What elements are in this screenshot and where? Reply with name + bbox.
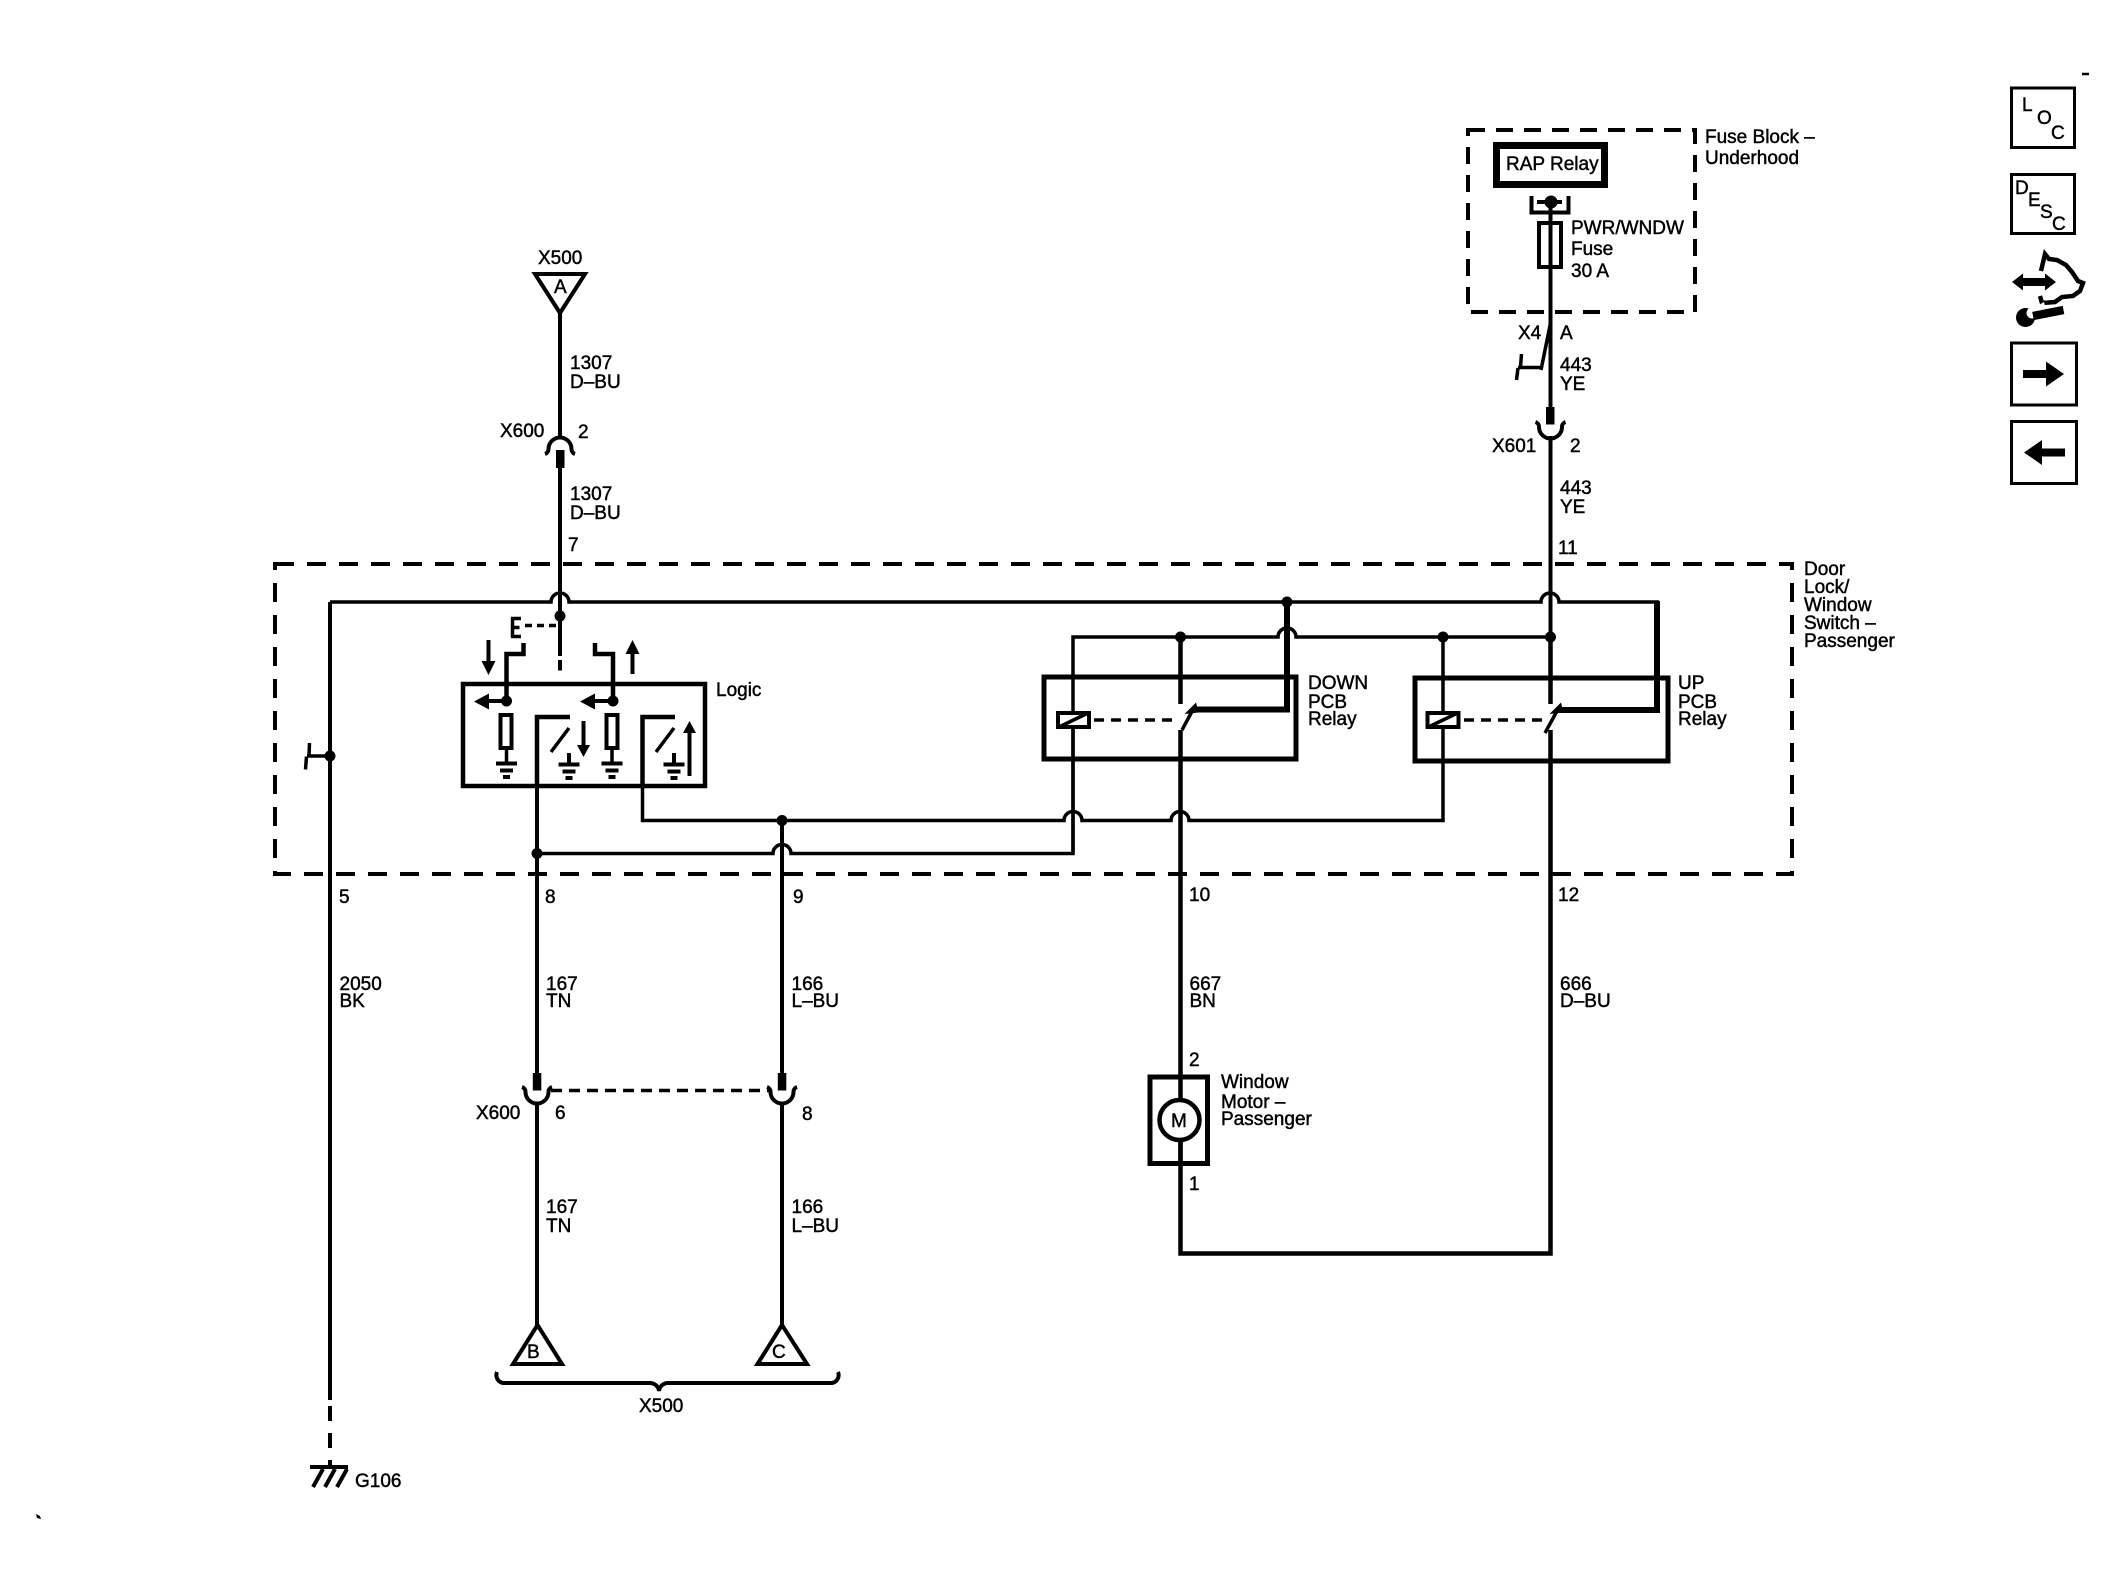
motor circle M bbox=[1160, 1100, 1200, 1140]
up direction arrow (right) bbox=[631, 652, 635, 674]
svg-text:PWR/WNDW: PWR/WNDW bbox=[1571, 218, 1684, 239]
svg-text:Fuse: Fuse bbox=[1571, 239, 1613, 260]
UP relay common riser bbox=[1548, 637, 1553, 704]
mechanical link dashed line E bbox=[525, 624, 557, 628]
svg-text:E: E bbox=[2028, 190, 2041, 211]
wire 443 from relay through fuse bbox=[1549, 202, 1553, 407]
UP relay blade bbox=[1545, 711, 1557, 733]
DOWN coil wire lower bbox=[1071, 729, 1075, 854]
DOWN PCB relay box bbox=[1044, 677, 1296, 759]
svg-text:Passenger: Passenger bbox=[1221, 1109, 1313, 1130]
connector X600 female cup (pin 8) bbox=[767, 1087, 797, 1104]
svg-text:2: 2 bbox=[1570, 436, 1581, 457]
svg-text:RAP Relay: RAP Relay bbox=[1506, 154, 1599, 175]
svg-text:10: 10 bbox=[1189, 885, 1210, 906]
svg-text:1307: 1307 bbox=[570, 484, 612, 505]
logic box bbox=[463, 684, 705, 786]
wire 2050 dashed lower bbox=[328, 1406, 332, 1467]
svg-text:30 A: 30 A bbox=[1571, 261, 1609, 282]
up switch S2 frame bbox=[643, 717, 676, 786]
connector X601 male pin bbox=[1546, 407, 1555, 425]
svg-text:1307: 1307 bbox=[570, 353, 612, 374]
connector X600 male pin (pin 8) bbox=[778, 1073, 787, 1091]
connector X4 terminal A slash bbox=[1541, 323, 1551, 370]
svg-text:TN: TN bbox=[546, 1216, 571, 1237]
wire 666 pin12 to motor pin1 bbox=[1181, 730, 1551, 1254]
connector X600 in-line dashed link bbox=[551, 1089, 770, 1093]
svg-text:YE: YE bbox=[1560, 497, 1585, 518]
bus line 3 (up coil return) with hops over coil wire and pin10 wire bbox=[643, 729, 1444, 821]
svg-text:D–BU: D–BU bbox=[1560, 991, 1611, 1012]
wire 667 pin10 to motor bbox=[1178, 730, 1183, 1164]
svg-text:C: C bbox=[2052, 214, 2066, 235]
ground (up resistor) bbox=[602, 764, 623, 778]
shortcut icon double arrow bbox=[2012, 274, 2056, 291]
svg-text:C: C bbox=[2051, 123, 2065, 144]
svg-text:Underhood: Underhood bbox=[1705, 148, 1799, 169]
svg-text:X600: X600 bbox=[500, 421, 544, 442]
mechanical link dash below pin7 node bbox=[558, 660, 562, 671]
down switch arm (above box) bbox=[507, 643, 614, 701]
DOWN relay common riser bbox=[1178, 637, 1183, 704]
output arrow right bbox=[592, 699, 613, 703]
wire pin8 from down switch to triangle B bbox=[535, 786, 539, 1073]
connector X600 female cup (pin 6) bbox=[522, 1087, 552, 1104]
resistor R down bbox=[501, 715, 512, 748]
svg-text:S: S bbox=[2040, 202, 2053, 223]
junction dot right arm bbox=[608, 696, 619, 707]
shortcut icon wrench bbox=[2016, 302, 2064, 327]
UP relay actuating dashed link bbox=[1464, 718, 1546, 722]
svg-text:C: C bbox=[772, 1342, 786, 1363]
wire pin9 from line3 to triangle C bbox=[780, 821, 784, 1074]
svg-text:A: A bbox=[1560, 323, 1573, 344]
junction dot line2/down relay common bbox=[1175, 632, 1186, 643]
wire 167 lower bbox=[535, 1102, 539, 1327]
junction dot pin9/line3 bbox=[777, 815, 788, 826]
junction dot pin7 node bbox=[555, 611, 566, 622]
fuse PWR/WNDW 30A bbox=[1539, 223, 1561, 267]
svg-text:Relay: Relay bbox=[1678, 709, 1727, 730]
connector X600 female cup (pin 2) bbox=[545, 438, 575, 454]
svg-text:M: M bbox=[1171, 1111, 1187, 1132]
relay output terminal bracket bbox=[1530, 196, 1571, 213]
grommet X500 triangle A bbox=[535, 274, 585, 313]
svg-text:L–BU: L–BU bbox=[792, 991, 840, 1012]
junction dot clip bbox=[325, 751, 336, 762]
svg-text:6: 6 bbox=[555, 1103, 566, 1124]
ground (down switch) bbox=[559, 753, 580, 778]
grommet X500 triangle C bbox=[758, 1325, 808, 1364]
svg-text:1: 1 bbox=[1189, 1174, 1200, 1195]
LOC button bbox=[2012, 88, 2075, 148]
wire 2050 to pin 5 bbox=[328, 602, 332, 1400]
UP relay coil feed wire bbox=[1441, 637, 1445, 711]
svg-text:8: 8 bbox=[802, 1104, 813, 1125]
svg-text:Logic: Logic bbox=[716, 680, 761, 701]
wire 1307 D-BU upper bbox=[558, 311, 562, 439]
svg-text:L–BU: L–BU bbox=[792, 1216, 840, 1237]
ground (down resistor) bbox=[496, 764, 517, 778]
ground G106 bbox=[310, 1467, 348, 1487]
down switch arrow bbox=[582, 721, 586, 746]
svg-text:8: 8 bbox=[545, 887, 556, 908]
svg-text:X4: X4 bbox=[1518, 323, 1542, 344]
window motor box bbox=[1150, 1077, 1208, 1164]
svg-text:12: 12 bbox=[1558, 885, 1579, 906]
svg-text:X601: X601 bbox=[1492, 436, 1536, 457]
svg-text:YE: YE bbox=[1560, 374, 1585, 395]
junction dot pin8/line4 bbox=[532, 848, 543, 859]
svg-text:443: 443 bbox=[1560, 355, 1592, 376]
svg-text:Relay: Relay bbox=[1308, 709, 1357, 730]
stray mark top right bbox=[2082, 73, 2089, 76]
svg-text:166: 166 bbox=[792, 1197, 824, 1218]
svg-text:B: B bbox=[527, 1342, 540, 1363]
svg-text:O: O bbox=[2037, 108, 2052, 129]
UP relay coil bbox=[1428, 713, 1459, 727]
down switch S1 frame bbox=[537, 717, 570, 786]
junction dot NO/line1 bbox=[1282, 597, 1293, 608]
X500 brace bbox=[496, 1372, 838, 1391]
wire 166 lower bbox=[780, 1102, 784, 1327]
wire 1307 D-BU lower to pin 7 bbox=[558, 466, 562, 656]
svg-text:443: 443 bbox=[1560, 478, 1592, 499]
down direction arrow (left) bbox=[487, 640, 491, 663]
svg-text:5: 5 bbox=[339, 887, 350, 908]
svg-text:L: L bbox=[2022, 95, 2033, 116]
bus line 2 (feed to relays) with hop over down contact riser bbox=[1073, 628, 1551, 711]
junction dot on relay output bbox=[1545, 196, 1558, 209]
junction dot line2/pin11 feed bbox=[1545, 632, 1556, 643]
shortcut icon outline bbox=[2040, 254, 2083, 303]
svg-text:X500: X500 bbox=[639, 1396, 683, 1417]
svg-text:D: D bbox=[2015, 178, 2029, 199]
svg-text:TN: TN bbox=[546, 991, 571, 1012]
connector X600 male pin (pin 6) bbox=[533, 1073, 542, 1091]
door lock window switch passenger dashed box bbox=[275, 564, 1792, 874]
svg-text:G106: G106 bbox=[355, 1471, 401, 1492]
RAP Relay K (bold box) bbox=[1497, 146, 1605, 185]
grommet X500 triangle B bbox=[513, 1325, 562, 1364]
svg-text:D–BU: D–BU bbox=[570, 372, 621, 393]
connector X601 female cup bbox=[1536, 422, 1566, 439]
wire 443 YE to pin 11 bbox=[1549, 436, 1553, 637]
DESC button bbox=[2012, 175, 2075, 234]
UP PCB relay box bbox=[1415, 678, 1668, 761]
mechanical link label E bbox=[511, 618, 521, 638]
DOWN relay blade bbox=[1182, 710, 1193, 731]
svg-text:D–BU: D–BU bbox=[570, 503, 621, 524]
DOWN relay coil bbox=[1058, 713, 1089, 727]
stray mark bottom left bbox=[36, 1514, 41, 1519]
svg-text:11: 11 bbox=[1558, 538, 1578, 559]
previous page button (left arrow) bbox=[2012, 422, 2077, 484]
svg-text:A: A bbox=[554, 277, 567, 298]
svg-text:Fuse Block –: Fuse Block – bbox=[1705, 127, 1815, 148]
fuse block underhood dashed box bbox=[1468, 130, 1695, 312]
next page button (right arrow) bbox=[2012, 343, 2077, 405]
connector X600 male pin (pin 2) bbox=[556, 450, 565, 468]
svg-text:167: 167 bbox=[546, 1197, 578, 1218]
svg-text:BK: BK bbox=[340, 991, 366, 1012]
svg-text:2: 2 bbox=[578, 422, 589, 443]
resistor R up bbox=[607, 715, 618, 748]
svg-text:DOWN: DOWN bbox=[1308, 673, 1368, 694]
ground (up switch) bbox=[664, 753, 685, 778]
svg-text:BN: BN bbox=[1190, 991, 1216, 1012]
up switch arrow bbox=[688, 732, 692, 776]
output arrow left (to pin 5 bus) bbox=[486, 699, 507, 703]
connector X4 clip symbol bbox=[1517, 354, 1542, 380]
svg-text:7: 7 bbox=[568, 535, 579, 556]
svg-text:X600: X600 bbox=[476, 1103, 520, 1124]
svg-text:Passenger: Passenger bbox=[1804, 631, 1896, 652]
svg-text:UP: UP bbox=[1678, 673, 1704, 694]
clip symbol on ground wire bbox=[306, 743, 331, 770]
bus line 1 (feed) with hops over pin7 and pin11 wires bbox=[330, 593, 1659, 602]
UP relay NO contact to line1 bbox=[1560, 601, 1657, 710]
svg-text:X500: X500 bbox=[538, 248, 582, 269]
junction dot left arm bbox=[501, 696, 512, 707]
DOWN relay actuating dashed link bbox=[1094, 718, 1176, 722]
bus line 4 (down coil return) with hop over pin9 wire bbox=[537, 729, 1073, 854]
down switch blade bbox=[551, 728, 569, 752]
svg-text:2: 2 bbox=[1189, 1050, 1200, 1071]
DOWN relay NO contact to line1 bbox=[1195, 600, 1287, 710]
junction dot line2/up coil feed bbox=[1438, 632, 1449, 643]
svg-text:9: 9 bbox=[793, 887, 804, 908]
svg-text:Window: Window bbox=[1221, 1072, 1289, 1093]
up switch blade bbox=[656, 728, 674, 752]
